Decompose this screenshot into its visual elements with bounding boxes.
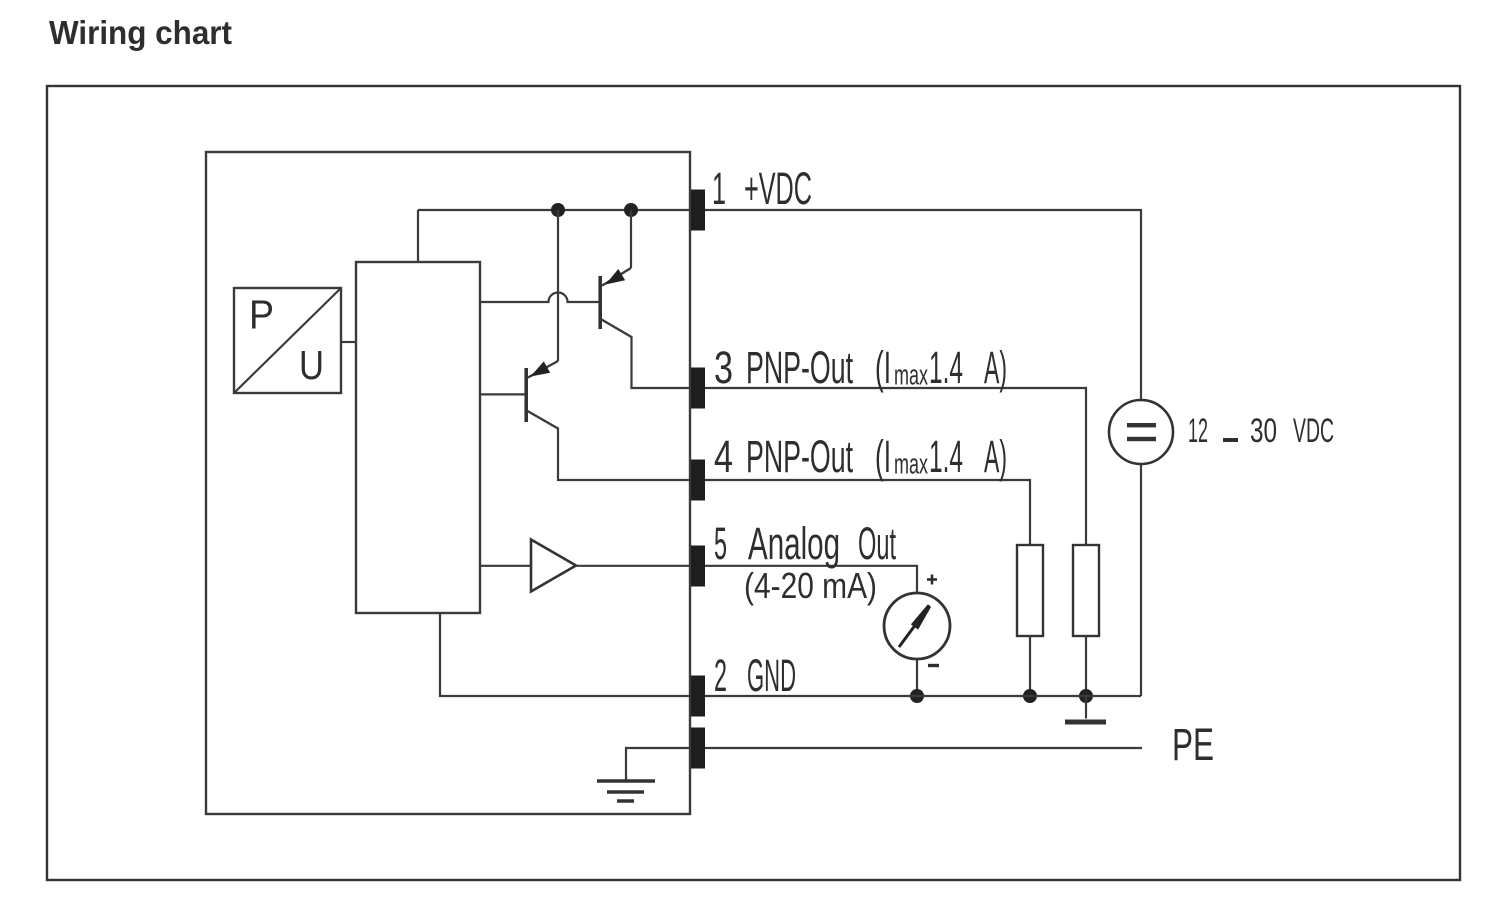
svg-text:5: 5 [714,518,727,569]
label: pin 5 Analog Out [714,518,896,606]
wire: Q2 emitter supply [557,210,559,361]
wire: GND rail [705,695,1141,697]
svg-text:3: 3 [714,342,733,393]
label: pin 4 PNP-Out Imax 1.4 A [714,431,1007,482]
pin 4 [691,460,705,501]
wire: buffer output to pin 5 [576,565,692,567]
wire: pin 1 +VDC to supply [705,210,1141,400]
wire: Q2 collector to pin 4 [558,428,692,481]
svg-text:A): A) [984,342,1007,393]
svg-text:Analog: Analog [748,518,840,569]
svg-text:Wiring chart: Wiring chart [49,14,232,51]
wire: block bottom to pin 2 GND [440,613,692,696]
svg-text:2: 2 [714,650,727,701]
svg-text:P: P [249,292,274,338]
svg-text:(I: (I [875,342,891,393]
svg-text:1.4: 1.4 [929,431,963,482]
svg-text:PNP-Out: PNP-Out [746,342,853,393]
resistor R1 load [1017,545,1043,636]
svg-text:max: max [894,449,928,481]
signal processing block U2 [356,262,480,613]
svg-text:GND: GND [747,650,796,701]
wire: PE line [705,747,1142,749]
wire: block top to +VDC rail [417,210,419,262]
svg-text:(I: (I [875,431,891,482]
wire: pin 3 to load R2 [705,388,1086,545]
ground internal earth symbol [597,781,655,801]
svg-text:1.4: 1.4 [929,342,963,393]
ground earth tick at GND rail [1065,696,1106,722]
svg-text:A): A) [984,431,1007,482]
label: pin 3 PNP-Out Imax 1.4 A [714,342,1007,393]
wire: block to analog buffer [480,565,531,567]
junction dot M1-GND [910,689,924,703]
polarity plus [927,575,937,585]
transistor Q2 (PNP) [526,361,558,429]
label: pin 1 +VDC [712,163,812,214]
pin 1 [691,190,705,231]
junction dot node VDD right [624,203,638,217]
wire: supply negative to GND rail [1140,464,1142,696]
ammeter M1 [884,593,950,659]
wire: P/U output to block [341,341,356,343]
label: pin 2 GND [714,650,796,701]
svg-text:12: 12 [1188,412,1208,450]
wire: PE pin to internal ground [626,748,692,780]
svg-text:VDC: VDC [1293,412,1334,450]
wire: block to Q2 base [480,393,525,395]
wire: block to Q1 base with hop over Q2 supply [480,293,599,303]
svg-text:PE: PE [1172,719,1214,770]
pin 3 [691,368,705,409]
svg-text:Out: Out [858,518,896,569]
transistor Q1 (PNP) [600,268,631,337]
polarity minus [928,664,939,667]
op-amp buffer A1 [531,540,576,592]
value label: 12 ... 30 VDC [1188,412,1334,450]
pin 5 [691,546,705,587]
svg-text:(4-20 mA): (4-20 mA) [744,565,877,606]
resistor R2 load [1073,545,1099,636]
svg-text:4: 4 [714,431,733,482]
junction dot R2-GND [1079,689,1093,703]
svg-text:max: max [894,360,928,392]
svg-text:U: U [299,342,324,388]
junction dot R1-GND [1023,689,1037,703]
wire: pin 4 to load R1 [705,480,1030,545]
sensor enclosure [206,152,690,814]
wire: R2 to GND rail [1085,636,1087,696]
wire: ammeter to GND rail [916,659,918,696]
dc supply source B1 [1109,400,1173,464]
pin 2 [691,676,705,717]
junction dot node VDD left [551,203,565,217]
svg-text:30: 30 [1250,412,1277,450]
wire: Q1 collector to pin 3 [632,336,693,388]
svg-text:1: 1 [712,163,726,214]
wire: R1 to GND rail [1029,636,1031,696]
wire: internal +VDC rail [418,209,692,211]
wire: pin 5 to ammeter [705,566,917,594]
svg-text:+VDC: +VDC [744,163,812,214]
P/U converter U1 [234,288,341,393]
wire: Q1 emitter supply [630,210,632,268]
svg-text:PNP-Out: PNP-Out [746,431,853,482]
pin PE [691,728,705,769]
